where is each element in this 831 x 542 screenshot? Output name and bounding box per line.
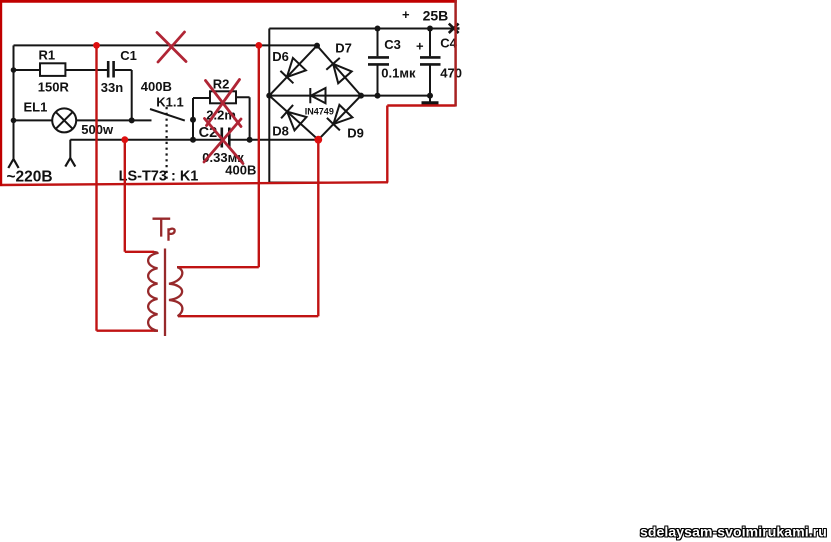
diode D9	[327, 105, 353, 130]
wire R2 branch left	[193, 97, 210, 99]
wire red right-angle output link	[387, 106, 455, 183]
ground ~220V caret left	[8, 159, 18, 168]
node dot switch output	[190, 117, 196, 123]
node red dot return	[121, 136, 128, 143]
svg-text:25В: 25В	[423, 7, 449, 23]
node red dot top rail B	[255, 42, 262, 49]
wire bridge diamond	[269, 46, 361, 140]
wire red vertical from return to primary top	[124, 140, 126, 252]
wire left rail	[13, 45, 15, 159]
wire return row	[70, 139, 318, 141]
transformer Tp primary winding	[148, 252, 157, 331]
node dot bridge top vertex	[314, 43, 320, 49]
relay link dotted line	[166, 107, 168, 180]
node dot left rail R1 row	[11, 67, 17, 73]
wire lamp row	[14, 119, 152, 121]
resistor R2	[210, 91, 236, 103]
connector x-mark 25V output	[449, 24, 460, 33]
svg-text:0.1мк: 0.1мк	[381, 66, 416, 81]
wire bridge box left vertical	[268, 29, 270, 183]
wire bridge box bottom	[269, 182, 387, 184]
svg-text:R1: R1	[39, 48, 56, 63]
capacitor C2	[222, 128, 230, 148]
svg-text:470: 470	[440, 66, 462, 81]
X cross-out R2	[206, 80, 242, 127]
border top red	[0, 0, 457, 3]
svg-text:C2: C2	[199, 125, 218, 141]
wire red vertical bridge AC top	[258, 45, 260, 267]
node dot return/R2C2 left	[190, 137, 196, 143]
svg-text:IN4749: IN4749	[305, 107, 334, 117]
wire red secondary top lead	[177, 266, 259, 268]
capacitor C3 stems	[377, 29, 379, 96]
node vertical at switch output	[192, 98, 194, 140]
svg-text:C3: C3	[384, 37, 401, 52]
wire red vertical from top rail to primary bottom	[95, 45, 97, 330]
lamp EL1	[52, 108, 76, 132]
svg-text:D9: D9	[347, 126, 364, 141]
border left red	[0, 0, 2, 186]
node dot C4 top	[427, 26, 433, 32]
node dot C3 bottom	[375, 93, 381, 99]
capacitor C3 plates	[368, 57, 389, 64]
svg-text:D8: D8	[272, 124, 289, 139]
X cross-out C2	[204, 119, 243, 164]
capacitor C4 plates	[420, 57, 441, 64]
svg-text:+: +	[416, 38, 424, 53]
diode D7	[326, 58, 351, 83]
wire bridge box top	[269, 28, 455, 30]
wire red vertical bridge AC bottom	[317, 140, 319, 317]
node dot bridge right vertex	[358, 93, 364, 99]
wire R1 row	[14, 69, 108, 71]
svg-text:LS-T73 : K1: LS-T73 : K1	[119, 169, 199, 185]
capacitor C4 stems	[429, 29, 431, 96]
svg-text:+: +	[402, 7, 410, 22]
node red dot top rail A	[93, 42, 100, 49]
wire red long bottom line	[0, 182, 388, 185]
resistor R1	[40, 63, 65, 76]
border right red	[454, 0, 457, 107]
wire red primary top lead	[125, 251, 154, 253]
transformer Tp core	[164, 249, 166, 337]
capacitor C1	[108, 61, 113, 78]
svg-text:C1: C1	[120, 48, 137, 63]
svg-text:EL1: EL1	[24, 99, 48, 114]
zener VD IN4749	[310, 88, 325, 103]
diode D6	[280, 58, 306, 83]
wire C1 to lamp node	[115, 70, 132, 120]
wire R2 branch right	[236, 97, 250, 139]
node dot lamp/C1 junction	[129, 117, 135, 123]
svg-text:400В: 400В	[141, 79, 172, 94]
label Tp	[153, 219, 175, 241]
svg-text:150R: 150R	[38, 80, 70, 95]
node dot C3 top	[375, 26, 381, 32]
RED ANNOTATION LAYER	[0, 45, 456, 330]
diode D8	[281, 105, 306, 130]
wire DC mid rail	[269, 95, 430, 97]
wire return elbow	[69, 140, 71, 159]
node dot bridge left vertex	[266, 93, 272, 99]
switch K1.1 blade	[150, 109, 185, 121]
node dot return/R2C2 right	[247, 137, 253, 143]
svg-text:R2: R2	[213, 77, 230, 92]
svg-text:33n: 33n	[101, 80, 123, 95]
node dot C4 bottom	[427, 93, 433, 99]
wire top rail	[14, 44, 318, 46]
svg-text:400В: 400В	[225, 163, 256, 178]
wire red primary bottom lead	[97, 330, 159, 332]
watermark sdelaysam-svoimirukami.ru	[639, 523, 828, 541]
svg-text:D7: D7	[335, 40, 352, 55]
node dot left rail lamp row	[11, 118, 17, 124]
svg-text:D6: D6	[272, 49, 289, 64]
ground at C4	[429, 96, 431, 102]
ground ~220V caret right	[65, 158, 75, 167]
wire red secondary bottom lead	[178, 315, 318, 317]
node red dot bridge bottom	[314, 136, 322, 144]
X cross-out top rail	[157, 32, 186, 62]
svg-text:K1.1: K1.1	[156, 95, 183, 110]
transformer Tp secondary winding	[169, 267, 182, 316]
svg-text:~220В: ~220В	[7, 169, 53, 186]
svg-text:sdelaysam-svoimirukami.ru: sdelaysam-svoimirukami.ru	[640, 524, 827, 540]
